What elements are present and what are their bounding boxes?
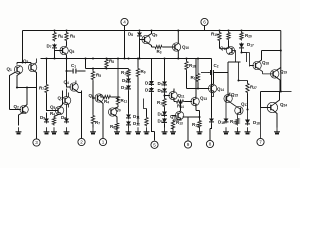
svg-text:D18: D18: [253, 120, 260, 126]
svg-text:R8: R8: [109, 59, 114, 65]
svg-text:2: 2: [80, 140, 83, 145]
svg-text:D13: D13: [145, 81, 152, 87]
svg-text:D6: D6: [61, 115, 66, 121]
svg-text:R4: R4: [50, 111, 55, 117]
svg-text:D17: D17: [247, 42, 254, 48]
svg-text:R5: R5: [96, 73, 101, 79]
svg-text:R25: R25: [230, 119, 237, 125]
svg-text:Q8: Q8: [69, 49, 75, 55]
svg-text:D7: D7: [158, 81, 163, 87]
svg-text:D8: D8: [128, 32, 133, 38]
svg-text:R9: R9: [141, 69, 146, 75]
svg-text:R6: R6: [110, 124, 115, 130]
svg-text:R15: R15: [192, 122, 199, 128]
svg-text:7: 7: [259, 140, 262, 145]
svg-text:Q19: Q19: [280, 69, 287, 75]
svg-text:R27: R27: [250, 85, 257, 91]
svg-text:Q10: Q10: [182, 45, 189, 51]
svg-text:6: 6: [203, 20, 206, 25]
svg-text:Q2: Q2: [14, 104, 20, 110]
svg-text:Q12: Q12: [170, 114, 177, 120]
svg-text:Q18: Q18: [262, 60, 269, 66]
svg-text:R6: R6: [58, 34, 63, 40]
svg-text:R7: R7: [95, 120, 100, 126]
svg-text:R20: R20: [245, 33, 252, 39]
svg-text:Q11: Q11: [178, 93, 185, 99]
svg-text:C1: C1: [71, 63, 76, 69]
svg-text:D7: D7: [47, 44, 52, 50]
svg-text:R7: R7: [39, 86, 44, 92]
svg-text:R11: R11: [121, 98, 128, 104]
svg-text:Q5: Q5: [50, 105, 56, 111]
svg-text:R3: R3: [157, 49, 162, 55]
svg-text:R4: R4: [104, 99, 109, 105]
svg-text:Q24: Q24: [280, 102, 287, 108]
svg-text:9: 9: [187, 142, 190, 147]
svg-text:D15: D15: [158, 119, 165, 125]
svg-text:8: 8: [209, 142, 212, 147]
svg-text:D14: D14: [158, 112, 165, 118]
svg-text:D14: D14: [145, 88, 152, 94]
svg-text:R10: R10: [121, 70, 128, 76]
svg-text:D9: D9: [122, 78, 127, 84]
svg-text:C2: C2: [214, 63, 219, 69]
svg-text:Q15: Q15: [231, 92, 238, 98]
svg-text:Q9: Q9: [152, 32, 158, 38]
svg-text:D12: D12: [133, 121, 140, 127]
svg-text:1: 1: [102, 140, 105, 145]
svg-text:R9: R9: [70, 34, 75, 40]
svg-text:D16: D16: [218, 120, 225, 126]
svg-text:D5: D5: [40, 115, 45, 121]
svg-text:R12: R12: [157, 100, 164, 106]
svg-text:Q1: Q1: [7, 67, 13, 73]
svg-text:R13: R13: [176, 120, 183, 126]
svg-text:Q13: Q13: [200, 96, 207, 102]
svg-text:R17: R17: [191, 75, 198, 81]
svg-text:D8: D8: [158, 88, 163, 94]
svg-text:3: 3: [35, 140, 38, 145]
svg-text:R19: R19: [211, 32, 218, 38]
svg-text:D10: D10: [121, 85, 128, 91]
svg-text:5: 5: [153, 142, 156, 147]
svg-text:Q3: Q3: [23, 59, 29, 65]
svg-text:R16: R16: [189, 63, 196, 69]
svg-text:D11: D11: [133, 114, 140, 120]
svg-text:4: 4: [123, 20, 126, 25]
svg-text:Q14: Q14: [217, 87, 224, 93]
svg-text:Q7: Q7: [58, 96, 64, 102]
